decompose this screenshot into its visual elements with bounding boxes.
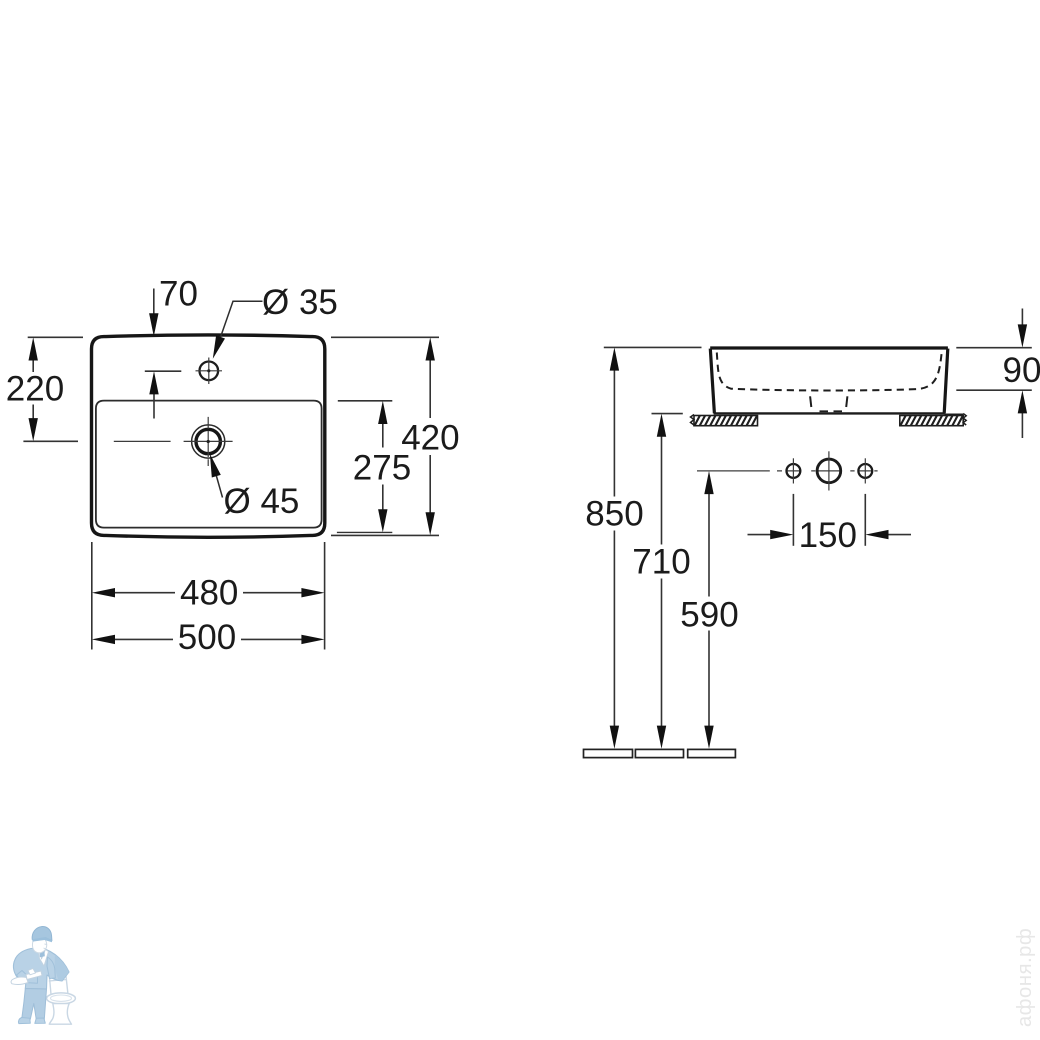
dim 90 upper line bbox=[1021, 309, 1023, 330]
floor bar 3 bbox=[688, 749, 736, 757]
right shoe bbox=[35, 1018, 46, 1023]
svg-text:Ø 35: Ø 35 bbox=[262, 283, 338, 322]
toilet bowl rim bbox=[47, 993, 76, 1004]
floor bar 1 bbox=[584, 749, 633, 757]
plumber jacket torso bbox=[14, 948, 69, 989]
faucet hole circle bbox=[200, 362, 219, 381]
tap hole centre bbox=[817, 459, 841, 483]
faucet centre reference line bbox=[145, 370, 182, 372]
dim 220 line bbox=[32, 356, 34, 423]
svg-text:850: 850 bbox=[585, 494, 643, 533]
left wall hatch strip bbox=[694, 416, 758, 426]
svg-text:590: 590 bbox=[680, 595, 738, 634]
extension line top-left 220 bbox=[28, 336, 83, 338]
white shirt chest bbox=[38, 948, 49, 966]
dim 90 lower line bbox=[1021, 409, 1023, 438]
svg-text:710: 710 bbox=[632, 542, 690, 581]
right wall hatch strip bbox=[900, 416, 963, 426]
plumber watermark bbox=[11, 927, 75, 1025]
left wall break squiggle bbox=[691, 415, 695, 426]
extension line 90 bottom bbox=[956, 389, 1032, 391]
jacket shading right shoulder bbox=[55, 955, 69, 981]
dim 275 line bbox=[382, 420, 384, 515]
trousers bbox=[22, 989, 47, 1020]
extension line 150 right bbox=[864, 494, 866, 546]
dim 850 line bbox=[613, 366, 615, 730]
svg-text:афоня.рф: афоня.рф bbox=[1013, 928, 1036, 1027]
drain bottom dashes bbox=[820, 410, 843, 412]
drain outer circle bbox=[192, 425, 225, 458]
extension line bottom-left vertical bbox=[91, 542, 93, 650]
right wall line extension bbox=[945, 414, 964, 416]
svg-text:220: 220 bbox=[6, 369, 64, 408]
faucet hole crosshair bbox=[196, 358, 223, 385]
extension line 150 left bbox=[792, 494, 794, 546]
left forearm bbox=[17, 971, 38, 984]
extension line 420 bottom bbox=[331, 534, 439, 536]
dim 150 line right bbox=[884, 534, 911, 536]
floor bar 2 bbox=[635, 749, 683, 757]
cap bbox=[32, 927, 52, 941]
extension line bottom-right vertical bbox=[324, 542, 326, 650]
basin bottom edge bbox=[714, 412, 945, 414]
dim 500 line bbox=[111, 638, 307, 640]
bowtie bbox=[39, 949, 45, 957]
right wall break squiggle bbox=[963, 414, 966, 425]
extension line 710 top bbox=[652, 413, 683, 415]
left hand white glove bbox=[11, 977, 28, 984]
svg-text:70: 70 bbox=[159, 275, 198, 314]
toilet tank bbox=[50, 976, 69, 994]
left shoe bbox=[18, 1018, 30, 1024]
svg-text:Ø 45: Ø 45 bbox=[224, 482, 300, 521]
svg-text:150: 150 bbox=[799, 516, 857, 555]
drain inner circle bbox=[196, 429, 220, 453]
leader line D45 bbox=[216, 474, 223, 498]
tap hole right bbox=[858, 464, 872, 478]
dim 480 line bbox=[111, 592, 307, 594]
extension line 275 top bbox=[338, 400, 393, 402]
leader line D35 bbox=[220, 301, 263, 340]
extension line 850 top bbox=[604, 346, 702, 348]
extension line 90 top bbox=[956, 347, 1032, 349]
sink outer outline bbox=[92, 335, 325, 537]
extension line 275 bottom bbox=[337, 531, 392, 533]
wrench in hands bbox=[26, 971, 42, 980]
svg-text:90: 90 bbox=[1003, 351, 1040, 390]
holes centreline bbox=[697, 470, 878, 472]
right arm to tank bbox=[47, 957, 55, 979]
tap hole left bbox=[787, 464, 801, 478]
dim 420 line bbox=[429, 356, 431, 517]
basin inner dashed outline bbox=[717, 353, 942, 391]
toilet base bbox=[49, 1004, 71, 1025]
drain cone dashed lines bbox=[810, 396, 847, 407]
basin side outline bbox=[710, 348, 948, 413]
svg-text:500: 500 bbox=[178, 618, 236, 657]
dim 710 line bbox=[661, 433, 663, 731]
svg-text:480: 480 bbox=[180, 574, 238, 613]
dim 70 upper arrow line bbox=[153, 289, 155, 319]
inner basin rect bbox=[96, 401, 322, 528]
dim 590 line bbox=[708, 490, 710, 731]
extension line drain level 220 bbox=[23, 440, 78, 442]
dim 150 line left bbox=[748, 534, 776, 536]
drain crosshair bbox=[114, 417, 233, 466]
dim 70 lower arrow line bbox=[153, 390, 155, 419]
extension line 420 top bbox=[331, 336, 439, 338]
svg-text:420: 420 bbox=[401, 418, 459, 457]
face bbox=[32, 936, 46, 952]
cap brim bbox=[32, 937, 52, 942]
